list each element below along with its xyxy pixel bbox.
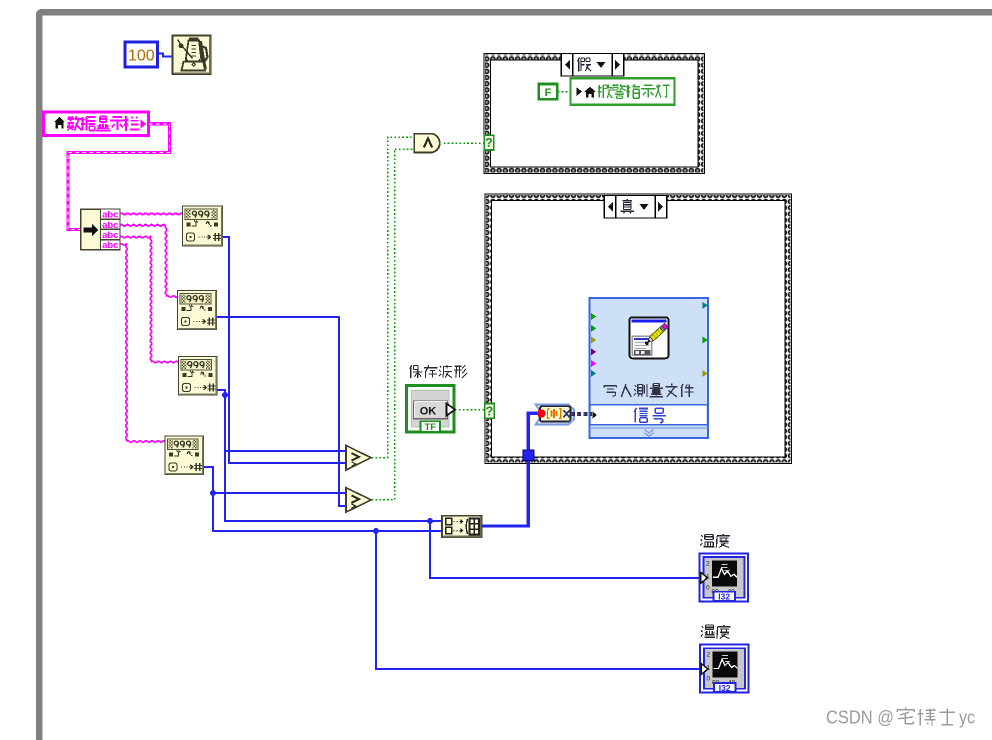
chart terminal 湿度 bbox=[700, 645, 749, 693]
wire D2 to greater2 lower bbox=[217, 317, 348, 506]
wire and-gate to case1 selector bbox=[444, 142, 484, 144]
wire branch to chart-humidity bbox=[376, 531, 701, 669]
convert to dynamic data node bbox=[536, 405, 575, 425]
greater-than node G2 bbox=[346, 488, 371, 513]
case selector label 真 bbox=[604, 196, 667, 219]
wire branch D4 to greater2 upper bbox=[213, 492, 347, 494]
svg-text:yc: yc bbox=[959, 707, 975, 728]
wire build-array to case2 tunnel bbox=[482, 460, 529, 526]
wire 100-to-wait bbox=[157, 54, 172, 57]
wire G2 to and-gate bbox=[372, 149, 415, 500]
wire string 4 bbox=[120, 244, 127, 246]
wire tunnel to converter bbox=[528, 413, 537, 450]
wire refnum dashed bbox=[68, 124, 170, 230]
express VI 写入测量文件 bbox=[590, 298, 709, 438]
express VI caption 写入测量文件 bbox=[604, 384, 694, 398]
wire string 2 bbox=[120, 225, 166, 227]
svg-text:?: ? bbox=[486, 404, 494, 418]
string splitter node bbox=[81, 209, 101, 250]
wire F to refnum bbox=[558, 91, 571, 93]
wire ok-button to case2 selector bbox=[455, 409, 485, 411]
svg-text:100: 100 bbox=[128, 48, 155, 65]
boolean constant F bbox=[539, 84, 558, 99]
svg-text:TF: TF bbox=[424, 422, 436, 433]
control refnum 数据显示栏 bbox=[44, 112, 149, 136]
case selector label 假 bbox=[561, 54, 624, 77]
wire G1 to and-gate bbox=[372, 137, 415, 457]
express VI expand chevron bbox=[645, 430, 654, 437]
ok button terminal bbox=[407, 386, 455, 433]
numeric constant 100 bbox=[125, 42, 158, 67]
case1 selector terminal bbox=[484, 135, 494, 150]
case2 selector terminal bbox=[485, 404, 495, 419]
express VI terminals bbox=[591, 313, 596, 320]
svg-text:F: F bbox=[545, 87, 552, 99]
express VI signal row 信号 bbox=[592, 411, 597, 419]
greater-than node G1 bbox=[346, 445, 371, 470]
label 保存波形 bbox=[410, 365, 467, 378]
splitter abc outputs bbox=[101, 209, 121, 219]
case structure true frame bbox=[485, 194, 792, 464]
string-to-number node D2 bbox=[178, 291, 217, 330]
wire branch D3 to greater1 upper bbox=[225, 450, 347, 452]
build array node bbox=[442, 516, 482, 538]
wire string 1 bbox=[120, 213, 183, 215]
svg-text:2: 2 bbox=[707, 652, 711, 659]
wire D4 trunk bbox=[204, 467, 442, 531]
wire string 3 bbox=[120, 236, 151, 238]
and gate A1 bbox=[414, 134, 440, 153]
svg-text:I32: I32 bbox=[718, 592, 730, 602]
svg-text:CSDN @: CSDN @ bbox=[826, 707, 894, 728]
string-to-number node D3 bbox=[179, 357, 218, 396]
chart terminal 温度 bbox=[700, 553, 749, 601]
wire branch to chart-temperature bbox=[430, 521, 700, 578]
svg-text:2: 2 bbox=[706, 560, 710, 567]
express VI icon bbox=[630, 317, 669, 358]
svg-text:OK: OK bbox=[420, 406, 437, 418]
string-to-number node D1 bbox=[183, 206, 223, 246]
svg-text:0: 0 bbox=[706, 584, 710, 591]
case2 tunnel bbox=[523, 450, 534, 461]
control refnum 报警指示灯 bbox=[571, 78, 675, 104]
svg-text:?: ? bbox=[485, 136, 493, 150]
case structure false frame bbox=[484, 54, 705, 174]
wait until next ms multiple U1 bbox=[173, 36, 211, 75]
wire D1 to greater1 lower bbox=[223, 237, 348, 463]
wire dynamic data bbox=[571, 412, 592, 416]
svg-text:I32: I32 bbox=[719, 683, 731, 693]
svg-text:0: 0 bbox=[707, 676, 711, 683]
string-to-number node D4 bbox=[165, 436, 204, 475]
svg-text:abc: abc bbox=[102, 240, 118, 251]
wire D3 trunk bbox=[217, 390, 442, 521]
